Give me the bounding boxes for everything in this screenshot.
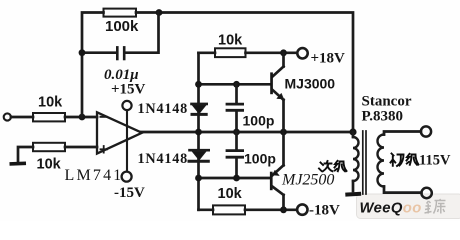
svg-text:100p: 100p <box>243 113 275 129</box>
node top rail cap branch <box>156 9 163 16</box>
resistor R3 10k top <box>215 48 246 57</box>
wire op-amp output row <box>141 131 353 134</box>
op-amp power pin line <box>126 106 128 172</box>
op-amp V- pin circle <box>122 172 132 182</box>
node cap tap on feedback line <box>79 49 86 56</box>
svg-text:100p: 100p <box>244 151 276 167</box>
node cap C2 bottom <box>233 175 240 182</box>
svg-text:10k: 10k <box>218 186 243 202</box>
svg-text:MJ3000: MJ3000 <box>285 76 336 92</box>
ground GND1 <box>18 147 33 162</box>
node collector top junction <box>280 49 287 56</box>
capacitor CF 0.01u plates <box>116 47 119 59</box>
svg-text:1N4148: 1N4148 <box>138 101 189 117</box>
watermark wei ku characters <box>425 199 446 214</box>
wire feedback vertical up to 100k <box>82 13 104 118</box>
svg-text:1N4148: 1N4148 <box>138 151 189 167</box>
label primary (chu ji) 115V <box>391 154 419 167</box>
wire diode chain vertical <box>197 53 200 210</box>
node output row cap <box>233 129 240 136</box>
wire R4 to -18V terminal <box>245 208 297 211</box>
terminal -18V <box>297 204 307 214</box>
op-amp plus marking <box>101 146 108 153</box>
terminal primary top <box>421 126 431 136</box>
svg-text:10k: 10k <box>38 95 63 111</box>
resistor R2 10k (non-inverting input) <box>33 143 65 151</box>
node output row transformer <box>349 128 356 135</box>
node collector bottom junction <box>280 206 287 213</box>
op-amp minus marking <box>101 116 107 118</box>
capacitor C1 100p <box>227 84 243 132</box>
diode D2 1N4148 <box>189 150 209 161</box>
transistor Q1 MJ3000 <box>270 53 283 132</box>
watermark box <box>357 194 460 219</box>
wire cap left branch <box>82 51 116 54</box>
wire top base row <box>199 83 271 86</box>
svg-text:10k: 10k <box>218 33 243 49</box>
resistor R4 10k bottom <box>213 205 245 214</box>
transformer T1 secondary winding <box>353 132 359 191</box>
node cap C1 top <box>233 81 240 88</box>
wire R1 to op-amp inverting input <box>65 116 97 119</box>
transformer T1 core <box>363 131 366 194</box>
ground T1 secondary bottom <box>345 192 361 197</box>
transistor Q2 MJ2500 <box>270 132 284 210</box>
svg-text:115V: 115V <box>419 153 451 169</box>
svg-text:WeeQoo: WeeQoo <box>360 201 422 217</box>
input terminal J1 <box>4 113 11 120</box>
node output row emitters <box>280 129 287 136</box>
svg-text:-15V: -15V <box>114 185 145 201</box>
capacitor C2 100p <box>227 132 243 178</box>
svg-text:+18V: +18V <box>311 51 346 67</box>
node diode D1 top <box>195 81 202 88</box>
svg-text:10k: 10k <box>37 157 62 173</box>
node output row diode <box>195 129 202 136</box>
wire J1 to R1 <box>11 116 33 119</box>
transformer T1 primary winding <box>378 132 422 193</box>
svg-text:LM741: LM741 <box>65 167 124 184</box>
resistor R1 10k (inverting input) <box>33 113 65 121</box>
resistor RF 100k <box>104 9 137 17</box>
svg-text:-18V: -18V <box>309 203 340 219</box>
wire bottom base row <box>199 177 271 180</box>
svg-text:MJ2500: MJ2500 <box>281 172 334 189</box>
wire cap right branch up to rail <box>126 13 159 53</box>
wire R2 to op-amp non-inverting input <box>65 146 97 149</box>
terminal primary bottom <box>421 188 431 198</box>
node feedback junction <box>79 114 86 121</box>
op-amp U1 LM741 <box>97 112 142 153</box>
svg-text:P.8380: P.8380 <box>362 109 404 125</box>
terminal +18V <box>297 48 307 58</box>
svg-text:+15V: +15V <box>111 82 146 98</box>
svg-text:Stancor: Stancor <box>362 93 412 109</box>
wire corner to R4 <box>199 208 214 211</box>
label secondary (ci ji) <box>319 161 347 172</box>
wire corner to R3 <box>199 51 216 54</box>
diode D1 1N4148 <box>192 104 207 115</box>
wire R3 to +18V terminal <box>246 51 298 54</box>
node diode D2 bottom <box>195 175 202 182</box>
svg-text:100k: 100k <box>105 18 139 35</box>
wire 100k to top rail and down right side <box>136 13 353 133</box>
op-amp V+ pin circle <box>122 101 131 110</box>
